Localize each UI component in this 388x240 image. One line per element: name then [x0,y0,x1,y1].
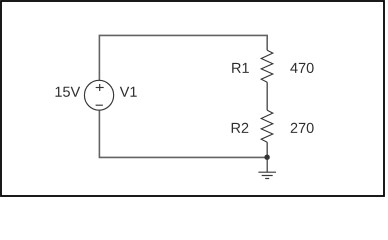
value 270 [291,123,314,133]
label R2 [232,123,249,133]
label R1 [232,63,249,73]
minus terminal mark [96,104,103,106]
resistor R2 [261,110,273,142]
junction node dot [264,155,269,160]
voltage source V1 [84,80,113,110]
value 470 [290,63,313,73]
ground [258,157,276,178]
wire bottom from V1 bottom to ground node [99,110,267,157]
wire between R1 and R2 [266,82,268,110]
label V1 [120,87,137,97]
label 15V [56,87,81,97]
plus terminal mark [96,87,104,89]
wire top from V1 top to R1 branch [99,35,267,80]
wire from R2 to ground node [266,142,268,157]
resistor R1 [261,50,273,82]
